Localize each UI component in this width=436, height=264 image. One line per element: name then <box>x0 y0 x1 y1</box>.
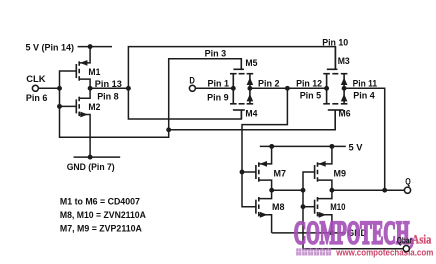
svg-text:Pin 8: Pin 8 <box>97 91 119 102</box>
svg-text:M3: M3 <box>338 56 350 67</box>
label D <box>189 76 195 87</box>
label Pin 2 <box>258 78 280 89</box>
svg-text:Pin 1: Pin 1 <box>208 78 230 89</box>
svg-text:COMPOTECH,: COMPOTECH, <box>294 215 414 251</box>
label Pin 3 <box>205 48 227 59</box>
svg-text:M6: M6 <box>339 109 351 120</box>
node M7 gate tee <box>240 170 245 175</box>
label M10 <box>330 202 345 213</box>
label Pin 13 <box>95 79 122 90</box>
transmission gate M5/M4 <box>230 69 253 110</box>
label M2 <box>88 102 100 113</box>
node M10/GND junction <box>329 230 334 235</box>
node rail/out1 junction <box>301 188 306 193</box>
svg-text:5 V (Pin 14): 5 V (Pin 14) <box>26 42 75 53</box>
label CLK <box>26 74 45 85</box>
label Pin 6 <box>26 93 48 104</box>
label M5 <box>245 58 258 69</box>
wire M6 gate lead <box>334 110 336 130</box>
wire 5V rail bottom <box>260 145 346 147</box>
transistor M10 <box>315 190 332 233</box>
svg-text:Asia: Asia <box>412 233 432 247</box>
transistor M9 <box>315 146 332 190</box>
label M8 <box>272 202 285 213</box>
label M6 <box>339 109 351 120</box>
label Pin 10 <box>322 37 348 48</box>
svg-text:M5: M5 <box>245 58 258 69</box>
svg-text:Pin 9: Pin 9 <box>207 92 229 103</box>
label 5 V (Pin 14) <box>26 42 75 53</box>
wire M7 gate lead <box>242 171 256 173</box>
wire Pin11 to Q rail <box>344 88 385 190</box>
node M7/5V junction <box>269 144 274 149</box>
wire line C (CLK to M6 gate) <box>169 110 336 130</box>
label M1 <box>88 67 101 78</box>
label Q <box>405 176 411 186</box>
wire inverter1 out to inverter2 gates <box>272 189 303 191</box>
svg-text:M10: M10 <box>330 202 345 213</box>
svg-text:GND (Pin 7): GND (Pin 7) <box>67 162 115 173</box>
svg-text:Pin 12: Pin 12 <box>296 78 322 89</box>
label GND (Pin 7) <box>67 162 115 173</box>
label M7 <box>274 169 287 180</box>
wire M5 gate lead <box>240 59 242 70</box>
node M2 source/GND junction <box>88 155 93 160</box>
wire M4 gate lead <box>240 110 242 119</box>
svg-text:Pin 5: Pin 5 <box>300 90 322 101</box>
svg-text:M4: M4 <box>245 109 258 120</box>
label Pin 4 <box>353 90 375 101</box>
wire Pin13/Pin8 output <box>90 87 128 89</box>
svg-text:M8: M8 <box>272 202 285 213</box>
wire M9/M10 gate rail <box>303 172 404 249</box>
node M9/5V junction <box>329 144 334 149</box>
wire Pin2 to Pin12 <box>250 87 327 89</box>
wire Pin10 loop (CLKbar to M3 gate) <box>128 47 335 89</box>
svg-text:Q: Q <box>405 176 411 186</box>
terminal Q <box>404 187 410 193</box>
svg-text:Pin 11: Pin 11 <box>353 78 378 89</box>
node TG2 left <box>324 86 329 91</box>
node M10 gate tee <box>301 204 306 209</box>
node Pin3/lineC junction <box>166 127 171 132</box>
svg-text:Pin 4: Pin 4 <box>353 90 375 101</box>
label Pin 11 <box>353 78 378 89</box>
node TG2 right <box>342 86 347 91</box>
label Pin 12 <box>296 78 322 89</box>
note M8, M10 = ZVN2110A <box>60 210 146 221</box>
transistor M2 <box>76 88 90 157</box>
watermark url <box>335 247 433 257</box>
terminal CLK <box>32 85 38 91</box>
svg-text:M1: M1 <box>88 67 101 78</box>
svg-text:M8, M10 = ZVN2110A: M8, M10 = ZVN2110A <box>60 210 146 221</box>
note M1 to M6 = CD4007 <box>60 196 140 207</box>
note M7, M9 = ZVP2110A <box>60 224 142 235</box>
svg-text:M2: M2 <box>88 102 100 113</box>
label Pin 9 <box>207 92 229 103</box>
label Pin 8 <box>97 91 119 102</box>
svg-text:5 V: 5 V <box>349 143 364 154</box>
svg-text:D: D <box>189 76 195 87</box>
label Pin 1 <box>208 78 230 89</box>
label M9 <box>334 169 347 180</box>
wire line B (latch node to M7/M8 gates) <box>242 88 287 206</box>
transistor M1 <box>76 47 90 89</box>
svg-text:Pin 13: Pin 13 <box>95 79 122 90</box>
wire Q output <box>332 189 405 191</box>
label 5 V bottom <box>349 143 364 154</box>
transistor M7 <box>256 146 272 190</box>
svg-text:Pin 2: Pin 2 <box>258 78 280 89</box>
wire GND rail bottom <box>272 232 346 234</box>
svg-text:M7: M7 <box>274 169 287 180</box>
wire CLK gate rail <box>60 59 242 138</box>
node TG1 right <box>247 86 252 91</box>
svg-text:M9: M9 <box>334 169 347 180</box>
svg-text:Pin 6: Pin 6 <box>26 93 48 104</box>
node M1/M2 drain junction <box>88 86 93 91</box>
label M4 <box>245 109 258 120</box>
node 5V/M1 junction <box>88 44 93 49</box>
label GND bottom <box>347 228 367 239</box>
wire M2 gate lead <box>60 105 77 107</box>
svg-text:Pin 3: Pin 3 <box>205 48 227 59</box>
label M3 <box>338 56 350 67</box>
label Pin 5 <box>300 90 322 101</box>
wire line A (CLKbar to M4 gate) <box>128 88 241 119</box>
node Pin8/loop junction <box>126 86 131 91</box>
wire 5V rail left <box>78 46 112 48</box>
node M2 gate tee <box>57 104 62 109</box>
svg-text:Qbar: Qbar <box>397 235 412 245</box>
node CLK tee <box>57 86 62 91</box>
transmission gate M3/M6 <box>323 69 347 110</box>
node Q/feedback junction <box>382 188 387 193</box>
terminal D <box>189 85 195 91</box>
transistor M8 <box>256 190 272 233</box>
watermark chinese caption <box>296 248 331 255</box>
svg-text:www.compotechasia.com: www.compotechasia.com <box>335 247 433 257</box>
wire CLK input <box>38 87 59 89</box>
svg-text:CLK: CLK <box>26 74 45 85</box>
watermark Asia <box>412 233 432 247</box>
svg-text:M1 to M6 = CD4007: M1 to M6 = CD4007 <box>60 196 140 207</box>
watermark COMPOTECH <box>294 215 414 251</box>
wire D input <box>195 87 233 89</box>
wire M3 gate lead <box>334 47 336 70</box>
node latch input tap <box>285 86 290 91</box>
node M7/M8 output <box>269 188 274 193</box>
terminal Qbar <box>403 246 409 252</box>
svg-text:M7, M9 = ZVP2110A: M7, M9 = ZVP2110A <box>60 224 142 235</box>
node TG1 left <box>231 86 236 91</box>
wire M10 gate lead <box>303 206 315 208</box>
label Qbar <box>397 235 412 245</box>
node M9/M10 output <box>329 188 334 193</box>
wire GND rail left <box>74 156 121 158</box>
